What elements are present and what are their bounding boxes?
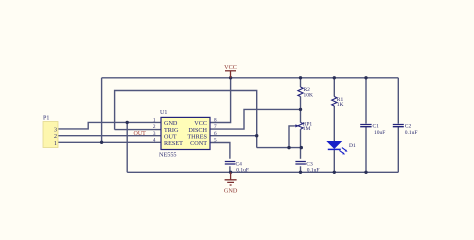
wire TRIG to U1.2 xyxy=(115,129,161,131)
wire LED cathode to ground rail xyxy=(333,149,335,172)
capacitor C2 xyxy=(393,123,418,136)
capacitor C4 xyxy=(225,161,249,173)
wire U1.7 DISCH to R2/RP1 junction xyxy=(210,109,301,129)
ground GND xyxy=(224,172,238,194)
wire TRIG-THRES rail xyxy=(115,91,257,148)
node C1 rail junction xyxy=(364,171,367,174)
wire C2 bottom to ground rail xyxy=(397,127,399,172)
wire R1 bottom to LED xyxy=(333,106,335,141)
svg-text:P1: P1 xyxy=(43,116,49,122)
wire GND drop from pin1 xyxy=(126,122,128,172)
svg-text:2: 2 xyxy=(54,134,57,140)
resistor R1 xyxy=(332,97,344,108)
node RP1 bottom junction xyxy=(300,146,303,149)
svg-text:3: 3 xyxy=(54,127,57,133)
svg-text:C2: C2 xyxy=(405,123,412,129)
svg-text:D1: D1 xyxy=(349,143,356,149)
svg-text:0.1uF: 0.1uF xyxy=(236,167,249,173)
wire P1.3 to U1.1 GND xyxy=(58,122,161,128)
svg-text:NE555: NE555 xyxy=(159,151,177,158)
wire THRES U1.6 xyxy=(210,135,257,137)
svg-text:GND: GND xyxy=(224,188,238,195)
wire OUT P1.2 to U1.3 xyxy=(58,135,161,137)
wire ground rail bottom xyxy=(127,171,398,173)
svg-text:1: 1 xyxy=(153,118,156,124)
node THRES junction xyxy=(255,134,258,137)
capacitor C1 xyxy=(360,123,385,136)
wire C1 branch top xyxy=(365,78,367,124)
node R2 top tap xyxy=(299,76,302,79)
svg-text:6: 6 xyxy=(214,131,217,137)
svg-text:1K: 1K xyxy=(337,102,344,108)
svg-text:VCC: VCC xyxy=(224,64,237,71)
wire VCC rail down to RESET xyxy=(101,78,103,143)
wire R1 branch top xyxy=(333,78,335,97)
node C1 top tap xyxy=(364,76,367,79)
svg-text:CONT: CONT xyxy=(190,140,207,147)
svg-text:4: 4 xyxy=(153,138,156,144)
node GND/C4 rail junction xyxy=(229,171,232,174)
wire C2 branch top xyxy=(397,78,399,124)
wire C4 bottom to ground rail xyxy=(229,166,231,172)
wire R2 branch top xyxy=(300,78,302,87)
svg-text:1M: 1M xyxy=(303,126,311,132)
power VCC xyxy=(224,64,237,78)
svg-text:7: 7 xyxy=(214,124,217,130)
resistor R2 xyxy=(298,87,313,98)
node wiper bottom junction xyxy=(287,146,290,149)
wire U1.8 to VCC rail xyxy=(210,78,231,123)
svg-text:8: 8 xyxy=(214,118,217,124)
capacitor C3 xyxy=(295,161,319,173)
wire C1 bottom to ground rail xyxy=(365,127,367,172)
svg-text:5: 5 xyxy=(214,138,217,144)
wire C3 bottom to ground rail xyxy=(300,166,302,172)
node VCC symbol tap xyxy=(229,76,232,79)
svg-text:1: 1 xyxy=(54,141,57,147)
node DISCH/R2/RP1 junction xyxy=(299,108,302,111)
wire VCC rail top xyxy=(102,77,399,79)
wire THRES to RP1 bottom xyxy=(257,147,302,149)
node R1 top tap xyxy=(333,76,336,79)
IC U1 NE555 timer xyxy=(153,110,217,158)
LED D1 xyxy=(327,141,356,154)
svg-text:U1: U1 xyxy=(160,110,167,116)
svg-text:10K: 10K xyxy=(304,92,314,98)
node LED rail junction xyxy=(333,171,336,174)
svg-text:OUT: OUT xyxy=(134,131,147,137)
node P1.3/U1.1 gnd junction xyxy=(126,121,129,124)
wire RESET line P1.1 to U1.4 xyxy=(58,141,161,143)
node C3 rail junction xyxy=(299,171,302,174)
svg-text:C1: C1 xyxy=(373,123,380,129)
svg-text:0.1uF: 0.1uF xyxy=(405,130,418,136)
junction dots xyxy=(100,76,368,174)
svg-text:10uF: 10uF xyxy=(374,130,385,136)
connector P1 xyxy=(43,116,58,148)
potentiometer RP1 xyxy=(294,122,312,132)
svg-text:0.1uF: 0.1uF xyxy=(307,167,320,173)
wire RP1 bottom to C3 xyxy=(300,129,302,159)
node RESET/VCC junction xyxy=(100,141,103,144)
wire U1.5 CONT down to C4 xyxy=(210,143,230,159)
wire RP1 wiper loop xyxy=(289,126,294,148)
svg-text:RESET: RESET xyxy=(164,140,183,147)
svg-text:2: 2 xyxy=(153,124,156,130)
wire R2 bottom to RP1 top xyxy=(300,97,302,123)
svg-text:3: 3 xyxy=(153,131,156,137)
